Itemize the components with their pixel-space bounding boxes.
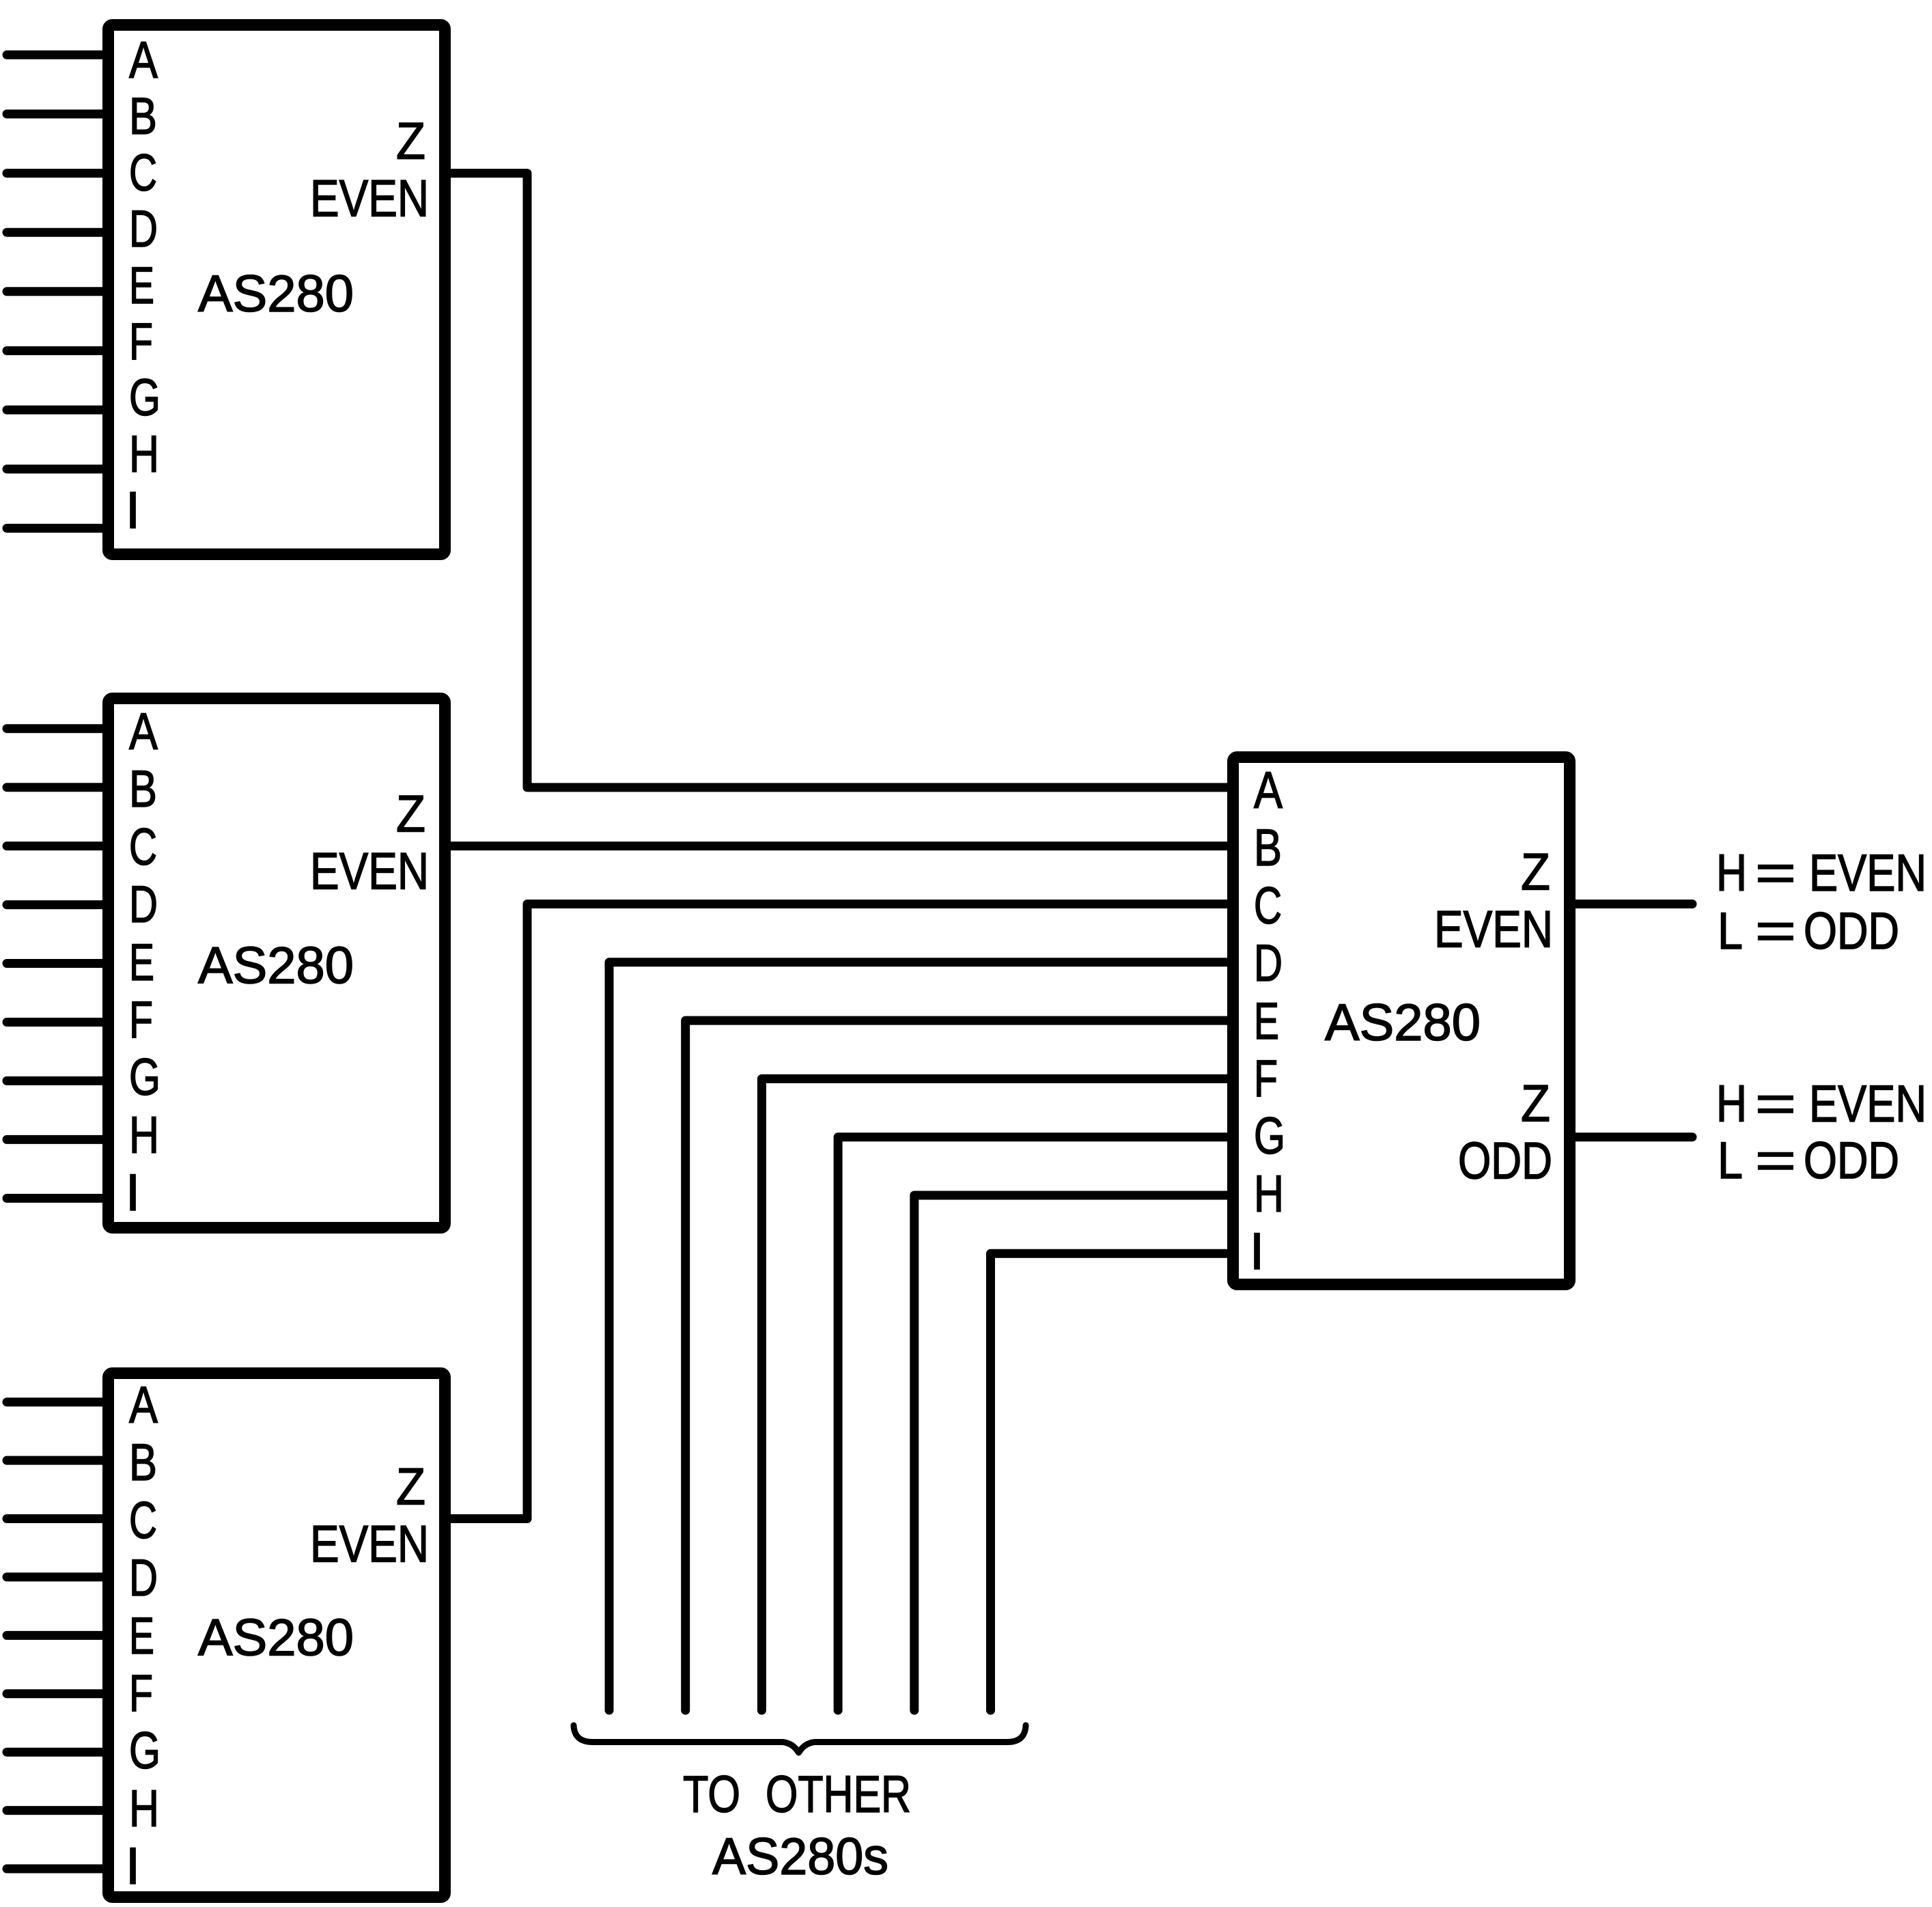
wire U2 input H bbox=[7, 1135, 104, 1144]
svg-text:OTHER: OTHER bbox=[766, 1766, 911, 1824]
svg-text:AS280: AS280 bbox=[198, 1609, 354, 1667]
svg-text:G: G bbox=[129, 1722, 160, 1780]
wire U3 input F bbox=[7, 1689, 104, 1698]
svg-text:A: A bbox=[129, 703, 158, 761]
svg-text:H: H bbox=[1716, 844, 1747, 902]
svg-text:EVEN: EVEN bbox=[1809, 844, 1927, 902]
svg-text:AS280: AS280 bbox=[198, 265, 354, 323]
wire U4 output Z EVEN bbox=[1570, 900, 1692, 908]
svg-text:H: H bbox=[129, 1780, 159, 1838]
svg-text:L: L bbox=[1718, 902, 1743, 960]
wire U4 input H to other AS280s bbox=[914, 1195, 1233, 1710]
wire U1 input G bbox=[7, 406, 104, 415]
svg-text:I: I bbox=[126, 1837, 140, 1895]
svg-text:C: C bbox=[129, 144, 157, 202]
svg-text:C: C bbox=[129, 1492, 157, 1550]
wire U1 input F bbox=[7, 346, 104, 355]
wire U4 output Z ODD bbox=[1570, 1132, 1692, 1141]
svg-text:AS280s: AS280s bbox=[712, 1828, 888, 1886]
svg-text:E: E bbox=[129, 257, 154, 315]
svg-text:D: D bbox=[1254, 934, 1283, 992]
svg-text:A: A bbox=[1254, 762, 1283, 820]
svg-text:AS280: AS280 bbox=[198, 937, 354, 995]
wire U2 input D bbox=[7, 900, 104, 909]
svg-text:I: I bbox=[126, 1164, 140, 1222]
svg-text:B: B bbox=[129, 760, 157, 818]
svg-text:H: H bbox=[129, 1106, 159, 1165]
svg-text:=: = bbox=[1755, 1132, 1796, 1190]
svg-text:C: C bbox=[129, 818, 157, 876]
svg-text:G: G bbox=[129, 1048, 160, 1106]
svg-text:I: I bbox=[1250, 1223, 1264, 1281]
wire U3 input E bbox=[7, 1631, 104, 1640]
svg-text:I: I bbox=[126, 482, 140, 540]
svg-text:F: F bbox=[129, 313, 153, 371]
IC body U2 AS280 (middle left) bbox=[109, 699, 445, 1228]
svg-text:Z: Z bbox=[1521, 1075, 1550, 1133]
wire U1 input E bbox=[7, 287, 104, 296]
svg-text:Z: Z bbox=[396, 1458, 425, 1516]
IC body U3 AS280 (bottom left) bbox=[109, 1374, 445, 1897]
IC body U1 AS280 (top left) bbox=[109, 25, 445, 555]
svg-text:=: = bbox=[1755, 902, 1796, 960]
svg-text:A: A bbox=[129, 31, 158, 89]
svg-text:H: H bbox=[129, 426, 159, 484]
svg-text:B: B bbox=[129, 1434, 157, 1492]
wire U3.Z to U4.C bbox=[444, 904, 1233, 1519]
IC body U4 AS280 (right) bbox=[1233, 757, 1570, 1285]
wire U1 input I bbox=[7, 524, 104, 533]
svg-text:D: D bbox=[129, 876, 158, 934]
svg-text:ODD: ODD bbox=[1804, 902, 1899, 960]
svg-text:C: C bbox=[1254, 877, 1282, 935]
wire U3 input B bbox=[7, 1456, 104, 1465]
svg-text:EVEN: EVEN bbox=[310, 1516, 429, 1574]
wire U2 input C bbox=[7, 841, 104, 850]
svg-text:EVEN: EVEN bbox=[1809, 1075, 1927, 1133]
svg-text:H: H bbox=[1716, 1075, 1747, 1133]
wire U2 input A bbox=[7, 724, 104, 733]
svg-text:TO: TO bbox=[683, 1766, 740, 1824]
wire U1 input B bbox=[7, 109, 104, 118]
wire U2 input B bbox=[7, 783, 104, 792]
svg-text:A: A bbox=[129, 1376, 158, 1434]
svg-text:B: B bbox=[1254, 819, 1282, 877]
wire U1 input D bbox=[7, 228, 104, 237]
wire U3 input A bbox=[7, 1397, 104, 1406]
svg-text:G: G bbox=[1254, 1107, 1285, 1165]
wire U3 input I bbox=[7, 1865, 104, 1874]
svg-text:Z: Z bbox=[1521, 844, 1550, 902]
wire U2.Z to U4.B bbox=[444, 841, 1233, 850]
svg-text:EVEN: EVEN bbox=[310, 843, 429, 901]
wire U4 input E to other AS280s bbox=[686, 1020, 1233, 1710]
brace under bus to other AS280s bbox=[574, 1725, 1026, 1753]
wire U3 input D bbox=[7, 1572, 104, 1581]
wire U4 input I to other AS280s bbox=[991, 1253, 1234, 1710]
wire U2 input E bbox=[7, 959, 104, 968]
svg-text:D: D bbox=[129, 1549, 158, 1607]
wire U1 input H bbox=[7, 464, 104, 473]
svg-text:Z: Z bbox=[396, 113, 425, 171]
svg-text:G: G bbox=[129, 369, 160, 427]
svg-text:D: D bbox=[129, 200, 158, 258]
svg-text:F: F bbox=[129, 1665, 153, 1723]
wire U3 input C bbox=[7, 1514, 104, 1523]
wire U1 input A bbox=[7, 51, 104, 59]
svg-text:=: = bbox=[1755, 844, 1796, 902]
svg-text:B: B bbox=[129, 87, 157, 145]
svg-text:EVEN: EVEN bbox=[310, 170, 429, 228]
wire U4 input G to other AS280s bbox=[838, 1137, 1233, 1710]
wire U2 input G bbox=[7, 1076, 104, 1085]
wire U3 input H bbox=[7, 1806, 104, 1815]
wire U1 input C bbox=[7, 169, 104, 178]
wire U1.Z to U4.A bbox=[444, 173, 1233, 788]
svg-text:Z: Z bbox=[396, 785, 425, 844]
wire U4 input D to other AS280s bbox=[609, 962, 1233, 1710]
svg-text:E: E bbox=[129, 1607, 154, 1665]
svg-text:AS280: AS280 bbox=[1325, 994, 1481, 1052]
wire U3 input G bbox=[7, 1748, 104, 1757]
svg-text:ODD: ODD bbox=[1458, 1132, 1552, 1191]
svg-text:F: F bbox=[129, 991, 153, 1049]
wire U2 input I bbox=[7, 1194, 104, 1203]
svg-text:=: = bbox=[1755, 1075, 1796, 1133]
svg-text:E: E bbox=[1254, 992, 1279, 1050]
svg-text:H: H bbox=[1254, 1165, 1284, 1223]
svg-text:L: L bbox=[1718, 1132, 1743, 1190]
svg-text:ODD: ODD bbox=[1804, 1132, 1899, 1190]
svg-text:E: E bbox=[129, 934, 154, 992]
svg-text:F: F bbox=[1254, 1050, 1278, 1108]
svg-text:EVEN: EVEN bbox=[1434, 901, 1553, 959]
wire U4 input F to other AS280s bbox=[761, 1078, 1233, 1710]
wire U2 input F bbox=[7, 1018, 104, 1027]
